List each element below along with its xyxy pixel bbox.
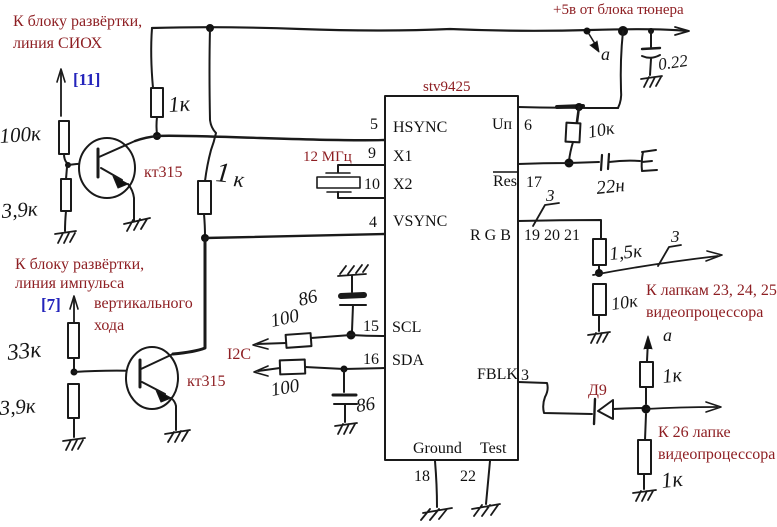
svg-text:4: 4 [369,214,377,231]
resistor 10k (divider) [593,284,606,315]
capacitor 0.22 [642,48,660,49]
svg-text:22н: 22н [595,175,625,199]
resistor 33k [68,323,79,358]
wire R to ground [598,315,600,331]
svg-text:кт315: кт315 [187,373,226,390]
svg-text:X2: X2 [393,176,413,193]
svg-text:10к: 10к [610,290,640,314]
wire vertical B from rail through crossing [205,28,216,181]
resistor 1k (upper right) [640,362,653,387]
svg-text:1к: 1к [661,364,683,388]
svg-text:1к: 1к [168,91,192,117]
capacitor 86 lower [333,394,356,397]
svg-text:a: a [601,44,610,64]
diode D9 [594,399,595,424]
svg-text:3: 3 [545,186,555,205]
wire cap to E [609,161,640,162]
wire base Q1 [68,163,97,165]
svg-text:3: 3 [521,367,529,384]
svg-text:10: 10 [364,176,380,193]
wire +5V top rail [152,27,686,31]
svg-text:Ground: Ground [413,440,462,457]
resistor 3.9k lower [68,384,79,418]
junction node SCL [347,331,356,340]
junction node Res [565,159,574,168]
svg-text:SCL: SCL [392,319,421,336]
ground below 10k [588,332,610,343]
svg-text:[7]: [7] [41,295,61,314]
resistor 100k [59,121,69,154]
bus slash 3 (out) [658,245,681,266]
arrow up (line 7) [73,300,75,322]
svg-text:3,9к: 3,9к [0,197,39,224]
inverted ground above C 86 [338,265,368,276]
wire HSYNC line to pin 5 [135,136,385,141]
IC U1 stv9425 body [385,96,518,460]
svg-text:[11]: [11] [73,70,100,89]
resistor R 1k (vertical B) [198,181,211,214]
svg-text:вертикального: вертикального [94,295,193,312]
wire to cap [351,276,353,292]
svg-text:1к: 1к [660,466,684,493]
svg-text:12 МГц: 12 МГц [303,149,352,165]
wire R1k to HSYNC node [156,117,159,134]
junction node rail B [584,28,591,35]
wire to node [64,154,67,163]
svg-text:1,5к: 1,5к [608,241,644,265]
resistor 100 (SCL) [286,333,312,348]
wire 33k to node [73,358,75,370]
svg-text:16: 16 [363,351,379,368]
svg-text:К 26 лапке: К 26 лапке [658,424,731,441]
svg-text:5: 5 [370,116,378,133]
wire node down [645,414,646,440]
wire Un pin6 [518,107,618,108]
svg-text:86: 86 [355,393,377,417]
wire SCL from IC [311,335,385,338]
svg-text:100к: 100к [0,121,42,148]
junction node rail C [618,26,628,36]
svg-text:HSYNC: HSYNC [393,119,447,136]
wire C to ground [650,59,651,75]
ground below 1k [633,490,656,501]
ground emitter Q1 [124,218,150,231]
svg-text:видеопроцессора: видеопроцессора [646,304,763,321]
svg-text:линия СИОХ: линия СИОХ [13,35,103,52]
bus slash 3 (RGB) [533,203,559,226]
wire X1 [338,165,385,172]
svg-text:6: 6 [524,117,532,134]
wire R to ground [643,474,645,489]
svg-text:К лапкам 23, 24, 25: К лапкам 23, 24, 25 [646,282,777,299]
resistor 1.5k [593,239,606,265]
wire VSYNC line to pin 4 [205,234,385,238]
arrow up (a) [647,340,648,361]
svg-text:к: к [232,166,246,192]
wire to arrow SDA [258,368,280,371]
svg-text:Uп: Uп [492,116,513,133]
svg-text:18: 18 [414,468,430,485]
svg-text:a: a [663,325,672,345]
svg-text:22: 22 [460,468,476,485]
svg-text:кт315: кт315 [144,164,183,181]
junction node base Q1 [65,162,71,168]
arrow up (line 11) [60,73,62,116]
svg-text:1: 1 [214,157,231,189]
resistor 1k (lower right) [638,440,651,474]
svg-text:33к: 33к [5,337,42,366]
svg-text:17: 17 [526,174,542,191]
ground below 3.9k [55,231,76,243]
wire FBLK [518,382,592,414]
wire X2 [338,192,385,198]
svg-text:3: 3 [670,227,680,246]
resistor 100 (SDA) [280,360,305,375]
wire RGB arrow out [593,256,718,275]
transistor Q2 кт315 [126,347,178,430]
junction node base Q2 [71,369,78,376]
svg-text:100: 100 [269,305,302,332]
svg-text:86: 86 [296,286,320,311]
wire to ground [73,418,75,437]
svg-text:Res: Res [493,173,517,190]
junction node FBLK out [642,405,651,414]
svg-text:9: 9 [368,145,376,162]
svg-text:10к: 10к [586,118,616,142]
wire vertical from rail to R 1k left [151,28,153,88]
junction node HSYNC left [153,132,161,140]
wire cap to SCL node [352,305,353,331]
ground below C 0.22 [641,76,662,87]
svg-text:линия импульса: линия импульса [15,275,124,292]
svg-text:+5в от блока тюнера: +5в от блока тюнера [553,2,684,18]
wire Res pin17 [518,162,599,164]
wire R to node [645,387,647,404]
svg-text:видеопроцессора: видеопроцессора [658,446,775,463]
svg-text:19 20 21: 19 20 21 [524,227,580,244]
junction node rail A [206,24,214,32]
wire arrow right (to pin 26) [646,407,717,409]
junction node RGB divider [595,269,603,277]
resistor 10k (Un-Res) [565,123,580,143]
svg-text:хода: хода [94,317,124,334]
svg-text:I2C: I2C [227,346,251,363]
svg-text:Д9: Д9 [588,382,607,399]
wire cap to ground [344,404,346,422]
resistor R 1k (1и) [151,88,163,117]
junction node Un [575,103,583,111]
wire Ground pin 18 [435,461,437,507]
crystal X 12MHz [326,172,350,174]
wire R10k to Res node [569,142,573,161]
junction node VSYNC left [201,234,209,242]
svg-text:3,9к: 3,9к [0,394,37,421]
wire rail to C 0.22 [650,31,652,47]
bold overdraw Un [557,106,583,107]
wire to ground [65,211,66,231]
capacitor 86 upper [341,295,364,296]
junction node rail D [648,28,654,34]
wire rail to Un pin 6 [618,31,623,108]
wire RGB bus [518,220,601,239]
svg-text:X1: X1 [393,148,413,165]
ground below 3.9k lower [63,438,85,450]
ground emitter Q2 [165,430,190,442]
wire SDA node down [343,369,345,392]
wire R to VSYNC node [204,214,205,236]
symbol E (net) [642,150,657,171]
wire Test pin 22 [486,461,490,504]
wire diode to node [613,408,645,409]
svg-text:SDA: SDA [392,352,424,369]
svg-text:100: 100 [269,375,301,401]
wire SDA from IC [305,367,385,369]
svg-text:R G B: R G B [470,227,511,244]
svg-text:Test: Test [480,440,507,457]
svg-text:К блоку развёртки,: К блоку развёртки, [13,13,142,30]
wire collector Q2 riser [173,238,205,354]
arrow a (top) [589,34,598,49]
wire node to R10k [577,107,579,122]
capacitor 22n [601,154,609,170]
ground pin18 symbol [421,508,452,520]
svg-text:К блоку развёртки,: К блоку развёртки, [15,256,144,273]
ground pin22 symbol [472,504,500,516]
svg-text:0.22: 0.22 [657,51,690,74]
wire base Q2 [74,371,139,372]
svg-text:stv9425: stv9425 [423,79,471,95]
wire to arrow SCL [257,343,286,344]
wire R to node [598,265,600,271]
resistor 3.9k upper [61,179,71,211]
ground below C 86 lower [335,423,357,434]
transistor Q1 кт315 [79,138,135,221]
svg-text:FBLK: FBLK [477,366,518,383]
svg-text:VSYNC: VSYNC [393,213,447,230]
junction node SDA [341,366,348,373]
svg-text:15: 15 [363,318,379,335]
